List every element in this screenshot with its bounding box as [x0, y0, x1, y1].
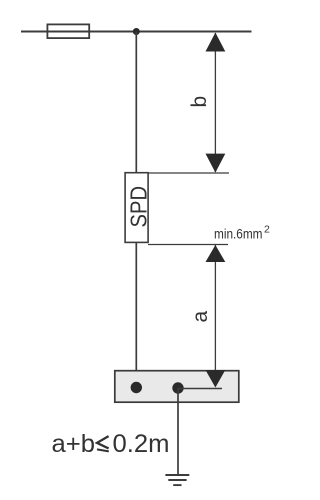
node junction	[133, 28, 140, 35]
svg-text:0.2m: 0.2m	[113, 430, 170, 458]
ground bar 1	[165, 474, 189, 476]
svg-text:b: b	[188, 96, 211, 108]
svg-text:2: 2	[264, 224, 270, 236]
extension line at SPD top	[148, 172, 229, 174]
svg-text:SPD: SPD	[125, 186, 151, 228]
terminal node right	[172, 382, 183, 393]
svg-text:min.6mm: min.6mm	[214, 226, 263, 242]
SPD U1 box	[125, 173, 148, 243]
fuse F1	[47, 24, 89, 38]
terminal node left	[131, 382, 142, 393]
earth bar (equipotential busbar)	[115, 371, 239, 403]
arrowhead a top	[206, 245, 226, 262]
dimension line a	[214, 245, 216, 387]
wire earth bar to ground	[177, 388, 179, 475]
wire top supply line	[21, 31, 252, 33]
wire junction to SPD	[135, 32, 137, 173]
wire SPD to earth bar	[135, 242, 137, 388]
arrowhead a bottom	[206, 370, 226, 388]
arrowhead b bottom	[206, 154, 226, 173]
ground bar 2	[168, 479, 186, 481]
ground bar 3	[173, 484, 181, 486]
wire terminal to dimension arrow	[178, 388, 222, 390]
svg-text:a: a	[189, 311, 212, 323]
arrowhead b top	[206, 33, 226, 52]
svg-text:a+b: a+b	[52, 430, 96, 458]
extension line at SPD bottom	[148, 244, 228, 246]
dimension line b	[214, 33, 216, 172]
less-than-or-slanted-equal symbol	[97, 436, 109, 448]
